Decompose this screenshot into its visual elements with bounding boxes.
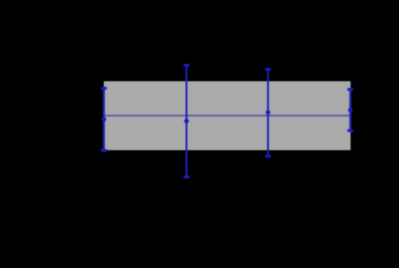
errorbar line 4 bottom cap [347,129,353,132]
errorbar line 1 stem [103,88,105,150]
neutral-axis line [104,115,350,117]
errorbar line 4 stem [349,89,351,130]
gray plate (beam cross-section) [104,81,351,150]
errorbar line 2 midpoint dot [184,119,189,124]
errorbar line 3 midpoint dot [266,110,271,115]
errorbar line 3 bottom cap [265,155,271,158]
errorbar line 2 bottom cap [184,176,190,179]
errorbar line 2 stem [186,65,188,177]
errorbar line 2 top cap [184,64,190,67]
errorbar line 4 midpoint dot [348,108,353,113]
errorbar line 1 bottom cap [101,149,107,152]
errorbar line 1 top cap [101,87,107,90]
errorbar line 3 stem [267,69,269,156]
errorbar line 3 top cap [265,68,271,71]
errorbar line 1 midpoint dot [102,117,107,122]
errorbar line 4 top cap [347,88,353,91]
